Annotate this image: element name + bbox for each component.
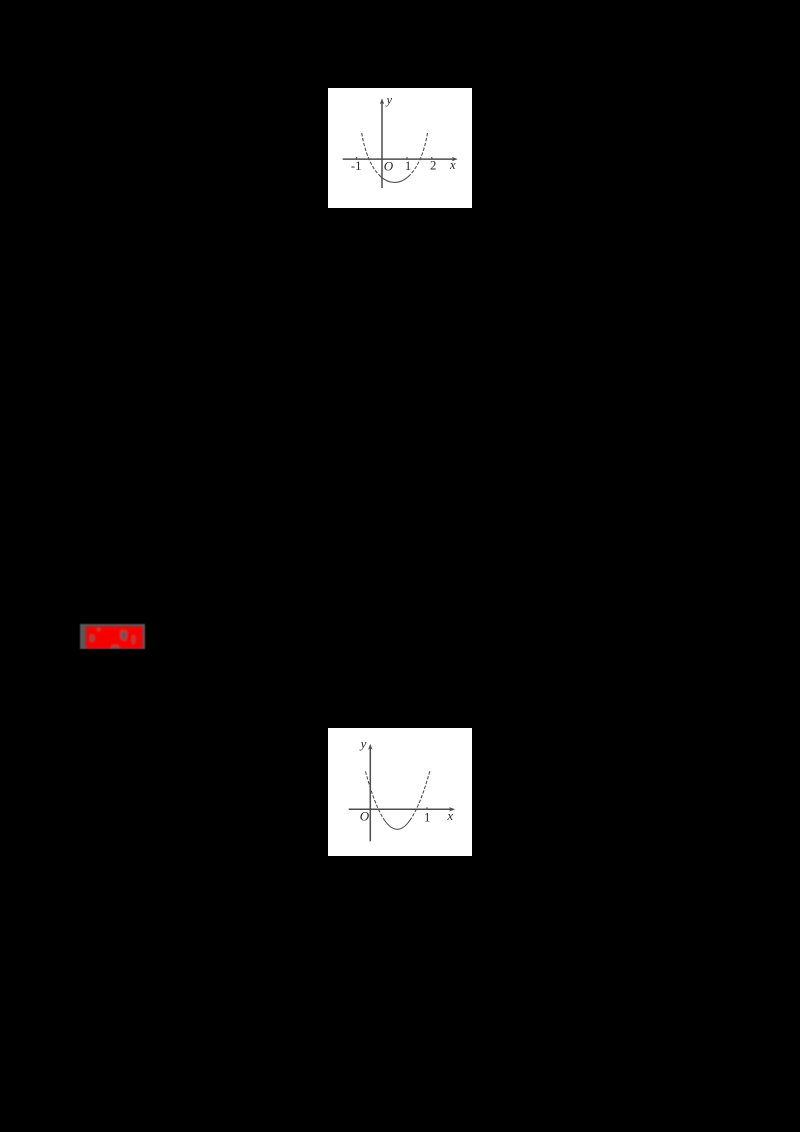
svg-text:O: O — [384, 159, 394, 174]
y-axis — [381, 101, 383, 188]
x-axis arrowhead — [449, 807, 455, 811]
gray sliver before 】 — [133, 635, 135, 643]
gray notch top between 解 and 析 — [121, 630, 127, 640]
svg-text:2: 2 — [430, 159, 436, 173]
tick 2 — [431, 157, 433, 159]
red text block 【解析】 (blurred) — [86, 626, 143, 648]
y-axis — [369, 747, 371, 842]
svg-text:x: x — [446, 808, 453, 823]
x-axis arrowhead — [452, 157, 458, 161]
parabola curve — [366, 771, 385, 820]
graph panel 1 (parabola with roots between -1..0 and 1..2) — [328, 88, 472, 208]
x-axis — [343, 158, 455, 160]
x-axis — [349, 808, 453, 810]
graph panel 2 (parabola with roots between 0 and 1) — [328, 728, 472, 856]
tick 1 — [406, 157, 408, 159]
y-axis arrowhead — [380, 98, 384, 104]
svg-text:y: y — [385, 93, 393, 107]
svg-text:y: y — [359, 736, 367, 751]
tick -1 — [356, 157, 358, 159]
svg-text:-1: -1 — [351, 159, 362, 173]
tick 1 — [426, 807, 428, 809]
red 【解析】 label on gray box — [80, 624, 145, 650]
y-axis arrowhead — [368, 744, 372, 750]
gray background — [80, 624, 145, 650]
gray notch between 【 and 解 — [90, 634, 94, 641]
gray dip bottom of 解 — [112, 645, 118, 648]
svg-text:O: O — [360, 808, 370, 823]
svg-text:1: 1 — [424, 811, 430, 825]
gray sliver top-left of 解 — [98, 628, 101, 630]
parabola curve — [362, 133, 379, 175]
svg-text:x: x — [449, 157, 456, 172]
svg-text:1: 1 — [405, 159, 411, 173]
